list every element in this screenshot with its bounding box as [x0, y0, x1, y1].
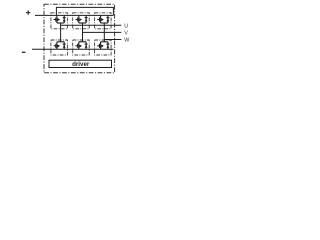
- svg-text:driver: driver: [72, 61, 90, 68]
- svg-text:U: U: [124, 23, 128, 29]
- svg-text:W: W: [124, 37, 130, 43]
- svg-text:V: V: [124, 31, 128, 37]
